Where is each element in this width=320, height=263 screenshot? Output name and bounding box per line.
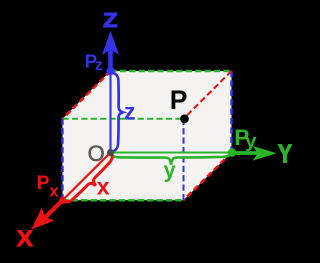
svg-text:x: x — [97, 174, 110, 200]
node O dot — [107, 149, 114, 156]
brace x red — [63, 153, 113, 202]
node Px dot — [59, 197, 66, 204]
wire Y axis inner segment — [111, 151, 232, 153]
wire back-top edge green dashed — [111, 70, 232, 72]
wire Y axis shaft — [232, 151, 263, 155]
wire X axis shaft — [44, 200, 63, 218]
node Pz dot — [106, 67, 114, 75]
svg-text:O: O — [88, 141, 105, 166]
wire back-right edge blue dashed — [230, 71, 232, 153]
arrowhead X axis — [32, 207, 55, 229]
svg-text:Y: Y — [278, 140, 292, 168]
box fill — [63, 71, 232, 200]
wire top-right oblique edge red dashed — [184, 71, 232, 119]
brace y green — [111, 153, 232, 165]
svg-text:z: z — [124, 98, 136, 124]
arrowhead Y axis — [253, 146, 277, 161]
wire front-top edge green dashed — [63, 118, 184, 120]
wire front-right edge blue dashed — [183, 119, 185, 201]
wire front-bottom edge green dashed — [63, 199, 184, 201]
wire X axis inner segment — [63, 153, 111, 201]
svg-text:P: P — [170, 85, 188, 115]
wire top-left oblique edge red dashed — [63, 71, 111, 119]
node Py dot — [228, 148, 236, 156]
svg-text:P: P — [37, 173, 50, 194]
svg-text:Z: Z — [103, 10, 118, 32]
wire Z axis inner segment — [109, 71, 111, 153]
brace z blue — [111, 73, 123, 153]
wire bottom-right oblique edge red dashed — [184, 153, 232, 201]
arrowhead Z axis — [102, 31, 119, 55]
svg-text:z: z — [95, 57, 103, 74]
svg-text:X: X — [17, 226, 33, 251]
wire Z axis shaft — [108, 45, 113, 71]
svg-text:y: y — [245, 130, 257, 151]
wire front-left edge blue dashed — [61, 119, 63, 201]
svg-text:x: x — [49, 182, 59, 201]
node P dot — [180, 114, 189, 123]
svg-text:y: y — [164, 157, 177, 182]
